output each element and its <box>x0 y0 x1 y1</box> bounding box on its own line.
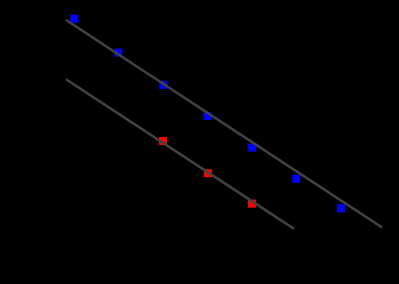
series 1 marker P5 <box>248 144 256 152</box>
series 1 marker P3 <box>159 81 167 89</box>
series 1 marker P7 <box>337 204 345 212</box>
series 1 fit line <box>66 20 382 228</box>
series 1 marker P1 <box>70 15 78 23</box>
series 1 marker P4 <box>204 112 212 120</box>
series 2 marker Q1 <box>159 137 167 145</box>
series 1 marker P6 <box>292 175 300 183</box>
series 2 marker Q2 <box>204 169 212 177</box>
series 1 marker P2 <box>114 49 122 57</box>
series 2 marker Q3 <box>248 200 256 208</box>
series 2 fit line <box>66 79 294 229</box>
